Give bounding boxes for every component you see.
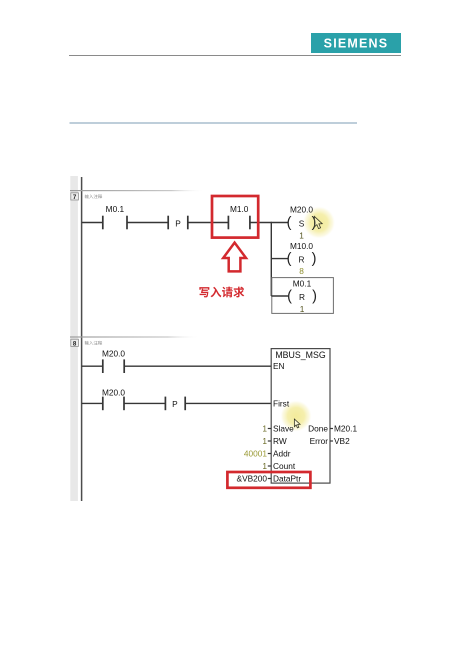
svg-text:RW: RW [273, 436, 287, 446]
coil R M10.0 [271, 241, 316, 276]
network 8 comment 输入注释 [85, 341, 103, 345]
svg-text:): ) [312, 251, 317, 267]
red highlight box around &VB200 DataPtr [227, 472, 310, 488]
contact P (positive edge) [168, 216, 188, 230]
yellow cursor glow (network 8) [281, 401, 312, 432]
input value &VB200 DataPtr [237, 474, 272, 484]
network 8 separator [70, 336, 200, 337]
input value 40001 Addr [244, 449, 271, 459]
blue underline rule [70, 122, 358, 124]
svg-text:Error: Error [310, 436, 329, 446]
svg-text:8: 8 [73, 340, 77, 347]
network 7 rung wire segments [82, 222, 288, 224]
svg-text:40001: 40001 [244, 449, 267, 459]
svg-text:(: ( [287, 251, 292, 267]
svg-text:DataPtr: DataPtr [273, 474, 301, 484]
svg-text:1: 1 [300, 304, 305, 314]
svg-text:MBUS_MSG: MBUS_MSG [275, 350, 326, 360]
svg-text:SIEMENS: SIEMENS [324, 37, 389, 51]
network 8 number badge [71, 339, 79, 347]
coil R M0.1 [271, 279, 317, 314]
svg-text:First: First [273, 399, 290, 409]
svg-text:R: R [299, 292, 305, 302]
network 8 rung 1 wires [82, 365, 272, 367]
network 7 separator [70, 190, 205, 191]
svg-text:(: ( [287, 289, 292, 305]
svg-text:&VB200: &VB200 [237, 474, 268, 484]
output Error VB2 [330, 436, 350, 446]
svg-text:M10.0: M10.0 [290, 241, 313, 251]
svg-text:S: S [299, 218, 305, 228]
input value 1 RW [262, 436, 271, 446]
contact M20.0 (rung 1) [102, 348, 125, 373]
svg-text:M0.1: M0.1 [293, 279, 312, 289]
svg-text:Done: Done [308, 424, 328, 434]
svg-text:): ) [312, 289, 317, 305]
svg-text:P: P [175, 218, 181, 228]
branch vertical wire [270, 222, 272, 296]
svg-text:8: 8 [299, 266, 304, 276]
svg-text:M20.0: M20.0 [102, 388, 125, 398]
svg-text:EN: EN [273, 361, 285, 371]
red annotation arrow [223, 243, 246, 272]
svg-text:M20.0: M20.0 [290, 205, 313, 215]
svg-text:Count: Count [273, 461, 296, 471]
network 7 comment 输入注释 [85, 194, 103, 198]
contact M20.0 (rung 2) [102, 388, 125, 411]
contact M1.0 [228, 204, 250, 229]
svg-text:P: P [172, 399, 178, 409]
svg-text:Slave: Slave [273, 424, 294, 434]
svg-text:1: 1 [262, 436, 267, 446]
left power rail [81, 177, 83, 501]
mouse cursor (network 7) [314, 216, 322, 228]
svg-text:M0.1: M0.1 [106, 204, 125, 214]
svg-text:1: 1 [299, 231, 304, 241]
svg-text:1: 1 [262, 461, 267, 471]
header rule line [69, 55, 401, 57]
svg-text:R: R [299, 254, 305, 264]
svg-text:M20.0: M20.0 [102, 348, 125, 358]
svg-text:7: 7 [73, 194, 77, 201]
selection box around M0.1 reset rung [272, 278, 334, 314]
contact P (rung 2) [165, 397, 185, 411]
red annotation text 写入请求 [199, 287, 244, 298]
svg-text:M20.1: M20.1 [334, 424, 357, 434]
mouse cursor (network 8) [294, 419, 300, 428]
output Done M20.1 [330, 424, 357, 434]
input value 1 Slave [262, 424, 271, 434]
yellow cursor glow (network 7) [303, 207, 335, 239]
input value 1 Count [262, 461, 271, 471]
network 7 number badge [71, 193, 79, 201]
SIEMENS logo box [311, 33, 401, 53]
svg-text:(: ( [287, 215, 292, 231]
svg-text:M1.0: M1.0 [230, 204, 249, 214]
svg-text:Addr: Addr [273, 449, 291, 459]
red highlight box around M1.0 [212, 196, 258, 238]
ladder editor left margin column [70, 176, 78, 501]
contact M0.1 [103, 204, 127, 229]
network 8 rung 2 wires [82, 402, 272, 404]
svg-text:1: 1 [262, 424, 267, 434]
svg-text:VB2: VB2 [334, 436, 350, 446]
function block MBUS_MSG [271, 349, 330, 484]
wire to R coil [271, 258, 288, 260]
coil S M20.0 [287, 205, 317, 241]
